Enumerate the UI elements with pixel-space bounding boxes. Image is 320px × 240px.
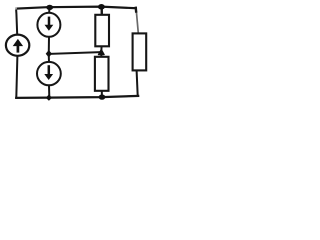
wire left rail upper faint top	[15, 8, 17, 11]
wire top rail	[17, 7, 136, 9]
wire R-branch stub mid lower	[100, 55, 102, 58]
wire middle branch stub top	[48, 8, 50, 13]
current source I1	[6, 35, 29, 56]
wire left rail upper	[16, 11, 17, 35]
node dot top rail middle	[46, 5, 53, 10]
node diamond bottom rail middle	[46, 94, 52, 100]
node junction mid R-branch	[98, 48, 105, 55]
node dot top rail R-branch	[98, 4, 105, 10]
wire left rail lower	[16, 56, 17, 98]
resistor R1	[95, 15, 109, 47]
node dot bottom rail R-branch	[99, 94, 106, 99]
wire mid horizontal	[51, 52, 100, 54]
wire R-branch stub bottom	[101, 91, 103, 97]
wire middle branch stub bottom	[48, 85, 50, 97]
node diamond mid middle	[46, 50, 52, 58]
wire R-branch stub top	[100, 7, 103, 15]
wire middle branch stub between CS2 and node	[48, 37, 50, 51]
wire right rail lower	[137, 71, 138, 96]
current source I3	[37, 62, 61, 85]
wire bottom rail	[16, 96, 138, 98]
resistor R3	[133, 33, 147, 70]
wire right rail upper	[136, 8, 138, 33]
wire right rail corner nub	[135, 8, 138, 12]
current source I2	[37, 13, 60, 37]
resistor R2	[95, 57, 109, 91]
wire middle branch stub between node and CS3	[48, 57, 50, 63]
wire R-branch stub mid upper	[100, 46, 102, 50]
